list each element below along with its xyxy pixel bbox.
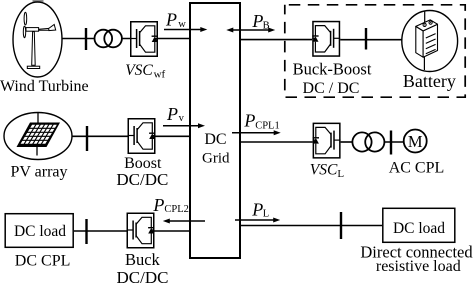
wire VSCwf to DC grid xyxy=(158,38,189,40)
bus tick wind xyxy=(85,28,87,50)
svg-text:Buck: Buck xyxy=(125,250,161,269)
converter Boost xyxy=(128,119,156,154)
gray crop artifact at top xyxy=(33,0,44,2)
svg-text:VSC: VSC xyxy=(125,62,153,79)
svg-text:resistive load: resistive load xyxy=(376,258,461,275)
svg-text:PV array: PV array xyxy=(10,163,67,180)
PV ellipse xyxy=(4,113,72,160)
bus tick battery xyxy=(365,28,367,50)
wire Boost to DC grid xyxy=(156,135,190,137)
svg-text:w: w xyxy=(178,19,186,30)
transformer T2 xyxy=(352,132,384,151)
svg-text:P: P xyxy=(166,104,178,124)
PV panel icon xyxy=(17,113,61,156)
wire Buck-Boost to battery xyxy=(340,39,402,41)
motor M circle xyxy=(404,130,427,153)
svg-text:Wind Turbine: Wind Turbine xyxy=(0,78,89,95)
bus tick resistive load xyxy=(340,212,342,239)
transformer T1 xyxy=(95,30,122,48)
svg-text:L: L xyxy=(337,168,344,180)
DC load box (right) xyxy=(383,208,455,242)
converter VSCwf xyxy=(130,22,158,57)
arrow Pw xyxy=(164,29,201,31)
svg-text:CPL2: CPL2 xyxy=(164,204,189,215)
svg-text:P: P xyxy=(243,110,255,130)
svg-text:P: P xyxy=(152,195,164,215)
wire DC grid to DC load (right) xyxy=(241,225,382,227)
svg-text:M: M xyxy=(408,132,423,151)
bus tick DC CPL xyxy=(85,219,87,244)
arrow PL xyxy=(235,219,274,221)
svg-text:CPL1: CPL1 xyxy=(255,120,280,131)
arrow PCPL1 xyxy=(232,132,275,134)
converter Buck xyxy=(127,213,155,248)
svg-text:AC CPL: AC CPL xyxy=(389,159,445,176)
svg-text:B: B xyxy=(263,21,270,32)
wire transformer to motor xyxy=(384,141,403,143)
svg-text:Grid: Grid xyxy=(202,151,230,167)
battery ellipse xyxy=(402,11,458,72)
svg-text:DC/DC: DC/DC xyxy=(116,170,168,189)
svg-text:DC / DC: DC / DC xyxy=(303,80,360,97)
svg-text:DC/DC: DC/DC xyxy=(117,268,169,284)
wind turbine ellipse xyxy=(13,2,62,77)
svg-text:DC CPL: DC CPL xyxy=(15,253,71,270)
svg-text:Battery: Battery xyxy=(403,71,456,91)
wind turbine icon xyxy=(23,12,55,68)
wire Buck to DC grid xyxy=(155,230,190,232)
bus tick AC CPL xyxy=(390,131,392,155)
svg-text:DC load: DC load xyxy=(14,223,66,240)
svg-text:wf: wf xyxy=(154,69,166,81)
svg-text:DC load: DC load xyxy=(393,220,445,237)
arrow PB (bidirectional) xyxy=(232,29,270,31)
converter VSC L (mirrored) xyxy=(313,123,341,158)
svg-text:L: L xyxy=(263,209,269,220)
converter Buck-Boost (mirrored) xyxy=(312,22,340,57)
wire DC grid to Buck-Boost xyxy=(241,39,312,41)
wire PV to Boost xyxy=(72,135,128,137)
svg-text:P: P xyxy=(251,199,263,219)
svg-text:P: P xyxy=(251,11,263,31)
dashed battery subsystem box xyxy=(285,5,465,97)
svg-text:DC: DC xyxy=(204,131,226,148)
bus tick PV xyxy=(86,126,88,151)
wire DC load to Buck xyxy=(74,230,127,232)
svg-text:v: v xyxy=(179,113,185,124)
DC grid box xyxy=(190,3,240,258)
wire DC grid to VSC L xyxy=(241,141,313,143)
arrow Pv xyxy=(163,125,199,127)
svg-text:Buck-Boost: Buck-Boost xyxy=(293,60,372,79)
DC load box (left) xyxy=(5,214,73,248)
wire wind to VSCwf xyxy=(62,38,130,40)
wire VSC L to transformer xyxy=(341,141,353,143)
arrow PCPL2 (points left) xyxy=(169,220,205,222)
svg-text:VSC: VSC xyxy=(310,162,338,179)
battery icon xyxy=(416,12,438,71)
svg-text:P: P xyxy=(165,9,177,29)
